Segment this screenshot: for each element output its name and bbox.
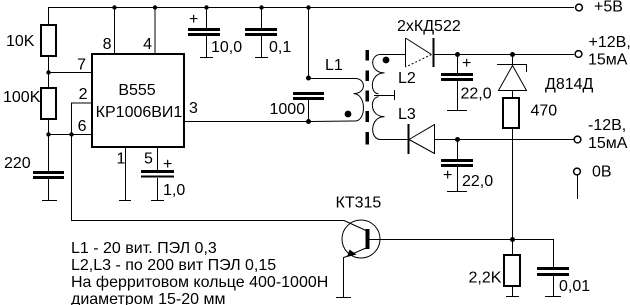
svg-text:+: + <box>462 55 471 72</box>
svg-text:6: 6 <box>78 118 87 135</box>
svg-text:3: 3 <box>189 100 198 117</box>
svg-text:L2,L3 - по 200 вит ПЭЛ 0,15: L2,L3 - по 200 вит ПЭЛ 0,15 <box>71 257 276 274</box>
center tap <box>374 90 395 100</box>
transformer L1 primary winding <box>308 79 363 122</box>
wire pin 4 <box>154 7 156 53</box>
wire pin 6 <box>48 134 91 136</box>
svg-text:22,0: 22,0 <box>462 173 493 190</box>
svg-text:+: + <box>443 167 452 184</box>
capacitor 22,0 (upper) <box>441 75 473 80</box>
resistor 100K <box>41 88 56 119</box>
svg-text:КТ315: КТ315 <box>336 195 382 212</box>
transformer L3 secondary winding <box>372 97 393 140</box>
svg-text:0,01: 0,01 <box>559 278 590 295</box>
svg-text:0,1: 0,1 <box>269 39 291 56</box>
wire cap 22,0 end bar (lower) <box>447 191 467 193</box>
svg-text:8: 8 <box>103 36 112 53</box>
wire diode VD2 to -12V terminal <box>434 139 574 141</box>
wire cap 22,0 bottom lead (upper) <box>457 81 459 110</box>
wire emitter end bar <box>336 297 351 299</box>
capacitor 0,01 <box>537 269 569 275</box>
svg-text:15мА: 15мА <box>588 52 628 69</box>
svg-text:10,0: 10,0 <box>211 39 242 56</box>
transistor Q1 KT315 <box>342 220 380 258</box>
wire cap 1000 to pin3 node <box>308 100 310 121</box>
capacitor 10,0 <box>188 30 220 35</box>
wire resistor 2,2K bottom lead <box>512 286 514 296</box>
svg-text:4: 4 <box>143 36 152 53</box>
svg-text:10K: 10K <box>6 33 35 50</box>
wire pin 3 <box>185 121 308 123</box>
svg-text:+5В: +5В <box>594 0 623 16</box>
node 100K/220 pin6 <box>46 132 50 136</box>
svg-text:15мА: 15мА <box>588 135 628 152</box>
terminal +12V <box>575 51 582 58</box>
wire L3 to diode VD2 <box>381 139 408 141</box>
wire emitter down <box>343 257 345 297</box>
capacitor 1,0 <box>141 172 174 177</box>
node rail-cap10,0 <box>204 5 208 9</box>
wire cap 1,0 end bar <box>151 200 164 202</box>
wire cap 10,0 bottom lead <box>206 36 208 57</box>
L2 polarity dot <box>383 57 390 64</box>
node pin3/L1 bottom <box>306 119 311 124</box>
resistor 10K <box>41 25 56 56</box>
wire pin 8 <box>114 7 116 53</box>
svg-text:На ферритовом кольце 400-1000Н: На ферритовом кольце 400-1000Н <box>71 274 328 291</box>
wire L2 to diode VD1 <box>381 54 405 56</box>
terminal -12V <box>574 136 581 143</box>
wire zener top lead <box>512 54 514 64</box>
svg-text:L2: L2 <box>398 70 416 87</box>
wire cap 0,1 bottom lead <box>261 36 263 57</box>
node diode/cap22 -12V <box>455 137 460 142</box>
resistor 2,2K <box>504 255 520 286</box>
svg-text:22,0: 22,0 <box>461 86 492 103</box>
IC U1 B555 / KR1006VI1 <box>92 54 184 147</box>
svg-text:+: + <box>163 156 172 173</box>
wire cap 22,0 top lead (lower) <box>457 140 459 159</box>
transformer core <box>365 50 369 145</box>
svg-text:+12В,: +12В, <box>589 34 630 51</box>
wire cap 0,01 end bar <box>545 296 561 298</box>
node base/2,2K/0,01 <box>510 237 515 242</box>
svg-text:1000: 1000 <box>270 101 306 118</box>
node zener +12V <box>510 52 515 57</box>
node rail-cap0,1 <box>259 5 263 9</box>
capacitor 22,0 (lower) <box>441 161 473 166</box>
wire cap 22,0 top lead (upper) <box>457 54 459 73</box>
wire feedback pin2/6 down and right to collector <box>72 134 345 221</box>
note text block <box>71 240 328 305</box>
wire base node to cap 0,01 <box>369 240 554 268</box>
svg-text:100K: 100K <box>3 89 41 106</box>
node rail-1000 <box>306 5 310 9</box>
svg-text:B555: B555 <box>118 82 155 99</box>
svg-text:2: 2 <box>79 86 88 103</box>
terminal 0V <box>574 168 581 175</box>
wire resistor 470 down to base node <box>512 128 514 239</box>
wire 0V terminal stub <box>577 175 579 199</box>
node 10K/100K pin7 <box>46 70 50 74</box>
wire pin 5 <box>157 148 159 170</box>
transformer L2 secondary winding <box>372 55 393 94</box>
wire pin 2 L-shape <box>72 103 92 134</box>
wire 10K bottom to 100K top <box>48 56 50 88</box>
wire cap 22,0 end bar (upper) <box>447 110 467 112</box>
wire cap 22,0 bottom lead (lower) <box>457 167 459 191</box>
wire cap 0,1 top lead <box>261 7 263 28</box>
wire 10K top lead <box>48 7 50 25</box>
wire cap 10,0 top lead <box>206 7 208 28</box>
wire rail to cap 1000 <box>308 7 310 78</box>
diode VD1 2xKD522 (top) <box>406 38 434 67</box>
wire 100K bottom to cap 220 <box>48 119 50 171</box>
wire pin 7 <box>48 72 91 74</box>
wire diode VD1 to +12V terminal <box>434 54 574 56</box>
wire cap 0,1 end bar <box>255 57 268 59</box>
svg-text:L1 - 20 вит. ПЭЛ 0,3: L1 - 20 вит. ПЭЛ 0,3 <box>71 240 217 257</box>
wire resistor 2,2K top lead <box>512 239 514 255</box>
node L1 top <box>306 76 311 81</box>
resistor 470 <box>503 98 519 128</box>
svg-text:1: 1 <box>117 151 126 168</box>
wire zener to resistor 470 <box>512 91 514 98</box>
terminal +5V <box>576 4 583 11</box>
zener diode D814D <box>497 65 527 91</box>
node diode/cap22 +12V <box>455 52 460 57</box>
svg-text:диаметром 15-20 мм: диаметром 15-20 мм <box>71 291 225 305</box>
svg-text:Д814Д: Д814Д <box>545 76 594 93</box>
svg-text:КР1006ВИ1: КР1006ВИ1 <box>96 104 183 121</box>
diode VD2 (bottom) <box>409 124 435 154</box>
wire cap 1,0 bottom lead <box>157 178 159 200</box>
svg-text:1,0: 1,0 <box>163 182 185 199</box>
svg-text:L3: L3 <box>398 106 416 123</box>
capacitor 0,1 <box>245 30 277 35</box>
node rail-pin4 <box>153 5 157 9</box>
svg-text:2,2K: 2,2K <box>469 270 502 287</box>
capacitor 220 <box>33 173 64 201</box>
L1 polarity dot <box>345 111 352 118</box>
svg-text:7: 7 <box>77 57 86 74</box>
wire pin 1 end bar <box>119 200 131 202</box>
svg-text:L1: L1 <box>325 57 343 74</box>
wire cap 0,01 bottom lead <box>553 276 555 296</box>
svg-text:+: + <box>189 11 198 28</box>
wire resistor 2,2K end bar <box>506 296 519 298</box>
wire +5V top rail <box>48 7 574 9</box>
wire pin 1 <box>125 148 127 200</box>
node pin2 feedback <box>69 132 73 136</box>
svg-text:5: 5 <box>144 151 153 168</box>
capacitor 1000 <box>293 94 324 99</box>
node rail-pin8 <box>112 5 116 9</box>
wire cap 10,0 end bar <box>200 57 213 59</box>
svg-text:2хКД522: 2хКД522 <box>397 18 461 35</box>
svg-text:220: 220 <box>4 155 31 172</box>
svg-text:470: 470 <box>531 103 558 120</box>
svg-text:-12В,: -12В, <box>588 117 626 134</box>
svg-text:0В: 0В <box>592 164 612 181</box>
